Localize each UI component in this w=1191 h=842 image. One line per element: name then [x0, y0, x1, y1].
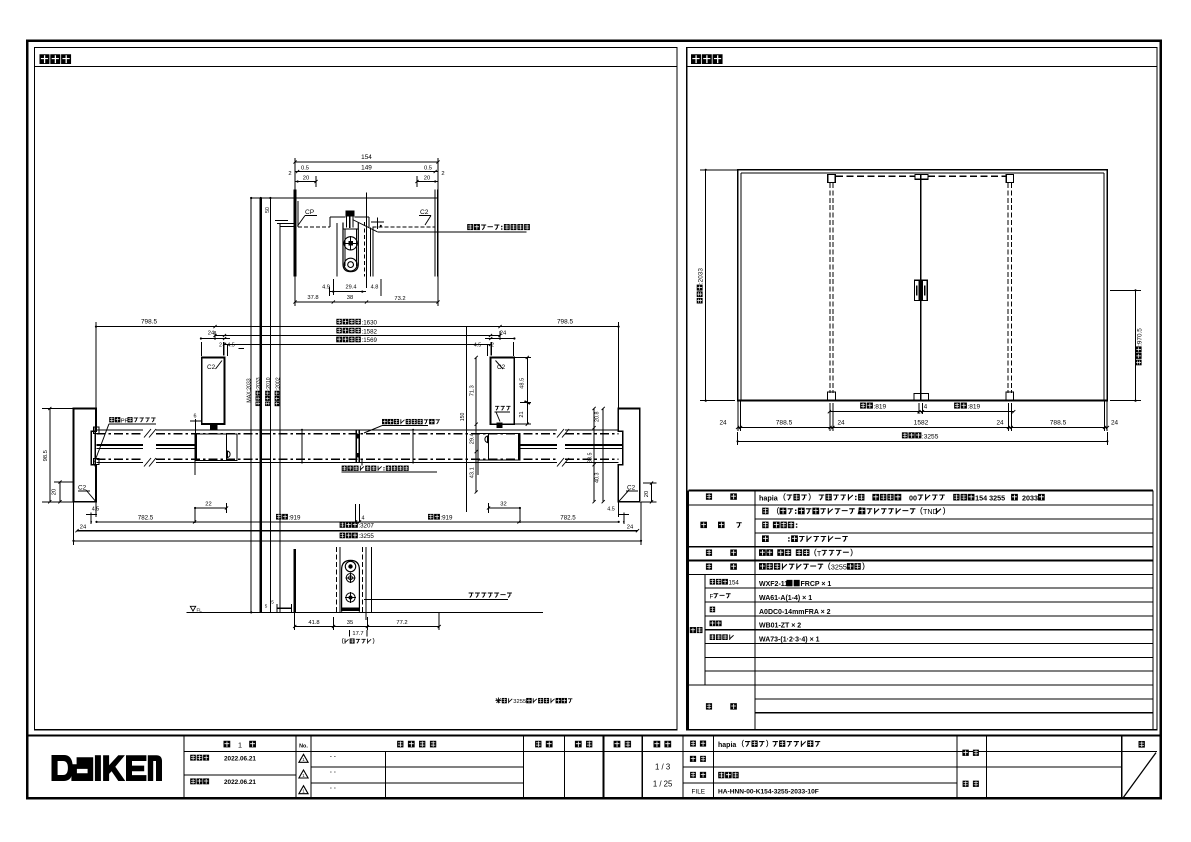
- svg-text:73.2: 73.2: [394, 296, 405, 302]
- plan tierB label: [336, 328, 341, 334]
- name column row line 1: [683, 766, 1122, 768]
- svg-text:5: 5: [265, 604, 268, 609]
- svg-text:4.8: 4.8: [371, 285, 379, 291]
- spec table row line 2: [755, 518, 1153, 520]
- svg-text::2010: :2010: [266, 377, 272, 390]
- svg-text:24: 24: [1111, 420, 1119, 427]
- door edge pull right: [485, 436, 488, 443]
- door end rect right ext: [477, 460, 479, 475]
- svg-text:32: 32: [500, 502, 506, 508]
- bottom wall line thick: [293, 549, 296, 612]
- front dim tier3 line: [738, 440, 1108, 442]
- spec hinban left edge lower: [687, 685, 689, 729]
- label tsurisha rail (separate part): [467, 224, 473, 230]
- svg-text:2: 2: [219, 343, 222, 349]
- svg-text:WA61-A(1-4) × 1: WA61-A(1-4) × 1: [759, 595, 812, 602]
- front tier2 tick: [831, 426, 834, 429]
- svg-text:71.3: 71.3: [470, 385, 476, 396]
- spec part hikite: [759, 623, 801, 630]
- svg-text:C2: C2: [420, 209, 429, 216]
- svg-text::3207: :3207: [358, 523, 374, 530]
- svg-text:hapia: hapia: [718, 742, 736, 749]
- svg-text:24: 24: [837, 420, 845, 427]
- rail profile bottom left (dashed): [298, 226, 330, 228]
- svg-text:798.5: 798.5: [557, 318, 573, 325]
- door panel lower line left: [97, 447, 144, 449]
- spec value handle: [759, 549, 766, 556]
- right pocket verticals: [593, 408, 595, 501]
- front dim frame-height top tick: [700, 169, 738, 171]
- spec value rail: [759, 563, 766, 570]
- svg-text:T: T: [817, 549, 822, 558]
- floor level mark: [190, 606, 195, 611]
- label zumei: [690, 772, 696, 778]
- front tier2 tick: [1007, 426, 1010, 429]
- hanger body rounded channel: [343, 223, 358, 272]
- plan dim tierA line: [96, 326, 619, 328]
- svg-text:1 / 3: 1 / 3: [655, 763, 670, 772]
- page box header line: [1122, 750, 1157, 752]
- c2 right ext vertical: [466, 327, 468, 512]
- revision history row line 0: [311, 766, 524, 768]
- svg-text::970.5: :970.5: [1137, 328, 1144, 346]
- left jamb dim 98.5: [49, 409, 51, 502]
- page diagonal: [1124, 753, 1157, 798]
- front handle left: [914, 280, 919, 300]
- spec table row line 16: [755, 712, 1153, 714]
- top detail left ext line: [294, 158, 296, 190]
- svg-text::1582: :1582: [362, 328, 378, 335]
- svg-text:C2: C2: [627, 485, 636, 492]
- svg-text:20: 20: [424, 175, 430, 181]
- spec value panel finish: [762, 508, 768, 515]
- svg-text:C2: C2: [78, 485, 87, 492]
- spec label totte: [706, 549, 712, 555]
- front dim frame-height bottom tick: [700, 400, 735, 402]
- title block column line 9: [985, 736, 987, 799]
- DAIKEN logo: [52, 755, 163, 781]
- svg-text:No.: No.: [299, 744, 308, 750]
- hanger roller upper: [344, 237, 357, 250]
- header kakunin: [575, 741, 582, 748]
- svg-text:4.5: 4.5: [607, 506, 615, 512]
- svg-text:788.5: 788.5: [1050, 420, 1067, 427]
- front tier2 tick: [736, 426, 739, 429]
- label meisho: [690, 741, 696, 747]
- front door top dashed edge left: [836, 175, 915, 177]
- bottom dim note parens: [342, 638, 344, 644]
- svg-text:WB01-ZT × 2: WB01-ZT × 2: [759, 623, 801, 630]
- front frame inner right: [1103, 173, 1105, 401]
- svg-text::3255: :3255: [922, 433, 939, 440]
- svg-text:MAX:2033: MAX:2033: [247, 378, 253, 402]
- front dim door width left: [860, 403, 866, 409]
- wall section line left (thick): [294, 190, 297, 277]
- svg-text:4.9: 4.9: [322, 285, 330, 291]
- svg-text:F: F: [710, 593, 714, 600]
- revision mark triangle 3: [299, 786, 308, 794]
- left jamb dim 20: [59, 482, 61, 502]
- top detail dim 20 right: [417, 181, 438, 183]
- front frame inner top: [741, 172, 1104, 174]
- bottom guide arch: [342, 560, 360, 611]
- svg-text:20: 20: [52, 489, 58, 495]
- front frame inner left: [740, 173, 742, 401]
- right jamb double line: [434, 190, 436, 277]
- label zuin: [963, 781, 969, 787]
- svg-text:154: 154: [361, 154, 372, 161]
- c2 post right rect: [491, 357, 515, 424]
- ceiling line above rail: [250, 197, 294, 199]
- name column row line 0: [683, 750, 957, 752]
- svg-text:782.5: 782.5: [138, 514, 154, 521]
- label flat rail: [469, 593, 474, 598]
- svg-text:22: 22: [205, 502, 211, 508]
- front tier2 tick: [1103, 426, 1106, 429]
- front bottom rule thick: [738, 400, 1108, 402]
- svg-text::819: :819: [873, 404, 886, 411]
- front tier2 tick: [1106, 426, 1109, 429]
- front handle right inner: [924, 286, 926, 296]
- svg-text:3255: 3255: [513, 699, 526, 705]
- svg-text:4.5: 4.5: [227, 343, 235, 349]
- bottom roller top: [345, 561, 355, 571]
- spec value style row: [759, 493, 1045, 502]
- floor step left: [277, 607, 291, 609]
- svg-text:24: 24: [80, 525, 87, 531]
- spec part fixed frame: [759, 580, 831, 588]
- right panel title divider: [687, 65, 1157, 67]
- revision mark triangle 1: [299, 754, 308, 762]
- svg-text:150: 150: [460, 413, 466, 422]
- spec sub door: [710, 607, 715, 613]
- svg-text:788.5: 788.5: [776, 420, 793, 427]
- svg-text:29.4: 29.4: [346, 285, 357, 291]
- svg-text:40.3: 40.3: [595, 473, 601, 484]
- spec label kanamono: [706, 563, 712, 569]
- title block column line 6: [682, 736, 684, 799]
- front left door top guide block: [828, 174, 835, 182]
- svg-text:WXF2-11: WXF2-11: [759, 581, 788, 588]
- svg-text:4.5: 4.5: [92, 506, 100, 512]
- front dim tier1 line: [829, 411, 1013, 413]
- front dim overall width 3255: [902, 432, 908, 438]
- bottom centre line: [365, 548, 367, 620]
- ceiling double line stub: [277, 222, 295, 224]
- bottom dim line: [295, 626, 440, 628]
- ceiling height dim 50: [265, 207, 271, 213]
- front ext lines below frame: [737, 401, 739, 431]
- svg-text::2033: :2033: [256, 377, 262, 390]
- svg-text:24: 24: [208, 331, 215, 337]
- left jamb section rect: [74, 409, 97, 502]
- svg-text::819: :819: [967, 404, 980, 411]
- spec label shi-a-ge: [700, 522, 707, 528]
- svg-text:24: 24: [719, 420, 727, 427]
- door band upper hidden dash: [97, 433, 144, 435]
- rail profile step right: [354, 216, 369, 218]
- spec table row line 7: [705, 587, 1153, 589]
- svg-text::1630: :1630: [362, 319, 378, 326]
- svg-text:38.5: 38.5: [588, 453, 594, 464]
- front tier2 tick: [1010, 426, 1013, 429]
- svg-text:24: 24: [500, 331, 507, 337]
- name column row line 2: [683, 782, 957, 784]
- svg-text:WA73-(1·2·3·4) × 1: WA73-(1·2·3·4) × 1: [759, 637, 820, 644]
- right pocket dim labels: [595, 412, 601, 423]
- left view panel box: [35, 48, 677, 730]
- rail inner left vertical: [297, 201, 299, 227]
- door edge pull left: [228, 451, 231, 458]
- hanger roller lower: [344, 258, 357, 271]
- svg-text:2: 2: [441, 171, 444, 177]
- value product name: [718, 740, 820, 749]
- spec table row line 8: [705, 601, 1153, 603]
- plan tier3 label: [340, 533, 345, 539]
- spec table row line 15: [755, 698, 1153, 700]
- bottom roller low: [346, 593, 355, 602]
- svg-text:· ·: · ·: [330, 785, 336, 792]
- front right door hidden edge (dashed pair): [1007, 183, 1009, 393]
- plan tier1 ticks: [193, 520, 196, 523]
- front dim frame-height label 2033: [697, 268, 705, 304]
- spec label yo-shiki: [706, 493, 712, 499]
- bottom channel lines: [336, 547, 338, 612]
- flat rail leader: [364, 599, 508, 601]
- spec part tojiri: [759, 637, 820, 644]
- title block column line 1: [295, 736, 297, 799]
- top detail left ext to tier: [294, 277, 296, 307]
- header shukushaku: [654, 741, 661, 748]
- front handle right: [922, 280, 927, 300]
- svg-text:CP: CP: [305, 209, 315, 216]
- hanger rail leader diagonal: [353, 220, 378, 232]
- rail hanger bolt head: [345, 210, 354, 216]
- svg-text:41.8: 41.8: [308, 620, 319, 626]
- spec table row line 9: [705, 615, 1153, 617]
- svg-text:154: 154: [729, 580, 740, 587]
- front right door bottom guide block: [1006, 392, 1014, 401]
- svg-text:149: 149: [361, 164, 372, 171]
- door end rect left: [195, 434, 237, 460]
- c2 post left top dims: [201, 338, 230, 340]
- front dim handle-height ticks: [1110, 289, 1141, 291]
- spec table label column line: [754, 490, 756, 729]
- rail profile step left: [329, 217, 331, 227]
- svg-text:0.5: 0.5: [424, 165, 432, 171]
- svg-text:24: 24: [627, 525, 634, 531]
- spec label biko: [706, 703, 712, 709]
- svg-text:1 / 25: 1 / 25: [653, 780, 673, 789]
- svg-text:21: 21: [519, 411, 525, 417]
- spec value door edge: [762, 522, 768, 529]
- top rail top plate: [295, 197, 438, 199]
- svg-text:77.2: 77.2: [396, 620, 407, 626]
- spec part f-rail: [759, 595, 812, 602]
- spec table row line 12: [705, 656, 1153, 658]
- rail channel left line: [336, 223, 338, 277]
- top detail right ext line: [437, 158, 439, 190]
- title block column line 3: [523, 736, 525, 799]
- header sakusei: [614, 741, 621, 748]
- svg-text:2: 2: [288, 171, 291, 177]
- rail channel right dashed: [363, 222, 365, 277]
- svg-text:FL: FL: [197, 607, 203, 612]
- svg-text:1582: 1582: [914, 420, 929, 427]
- hanger rail leader line: [377, 231, 526, 233]
- height label MAX2033: [247, 378, 253, 402]
- label kenmei: [962, 750, 968, 756]
- svg-text:1: 1: [238, 740, 242, 749]
- door panel thick line left: [97, 444, 144, 446]
- right jamb section rect: [618, 409, 640, 502]
- svg-text:C2: C2: [207, 364, 216, 371]
- door panel lower line right: [520, 447, 557, 449]
- panel tick right: [412, 430, 414, 463]
- right jamb ext line: [617, 327, 619, 427]
- panel tick left: [301, 430, 303, 463]
- svg-text::2033: :2033: [698, 268, 705, 284]
- right jamb chamfer: [619, 490, 630, 502]
- svg-text:1: 1: [302, 757, 305, 762]
- spec right edge: [1152, 490, 1154, 729]
- plan dim tierB line: [215, 335, 500, 337]
- svg-text:TND: TND: [923, 507, 938, 516]
- spec table row line 6: [688, 573, 1153, 575]
- left panel title divider: [35, 65, 677, 67]
- svg-text:· ·: · ·: [330, 754, 336, 761]
- svg-text:4: 4: [362, 516, 365, 522]
- c2 right dim col 29.4: [475, 424, 477, 451]
- left jamb inner ext line: [95, 327, 97, 427]
- svg-text:1: 1: [302, 773, 305, 778]
- spec table row line 1: [688, 504, 1153, 506]
- break mark left: [144, 429, 151, 438]
- front door top dashed edge right: [928, 175, 1006, 177]
- rail profile bottom right (dashed): [372, 226, 435, 228]
- plan dim tier3 line: [74, 540, 642, 542]
- section vertical line 2 (thick): [260, 198, 262, 612]
- rev row divider seitei/kaitei: [184, 774, 296, 776]
- view label SECTION (dan-men-zu): [40, 54, 50, 64]
- spec table top rule: [688, 489, 1153, 491]
- plan dim 22: [195, 507, 226, 509]
- spec table row line 10: [705, 629, 1153, 631]
- c2 right dim 48.5 col: [526, 357, 528, 402]
- front tier2 tick: [739, 426, 742, 429]
- svg-text:48.5: 48.5: [519, 378, 525, 389]
- value drawing name sanpo-waku: [718, 772, 724, 778]
- spec table row line 5: [688, 560, 1153, 562]
- c2 post left seal: [210, 423, 217, 430]
- spec table left edge: [687, 490, 689, 729]
- revision history inner divider: [385, 751, 387, 798]
- title block column line 8: [956, 736, 958, 799]
- front dim door width right: [954, 403, 960, 409]
- door panel thick line right: [520, 444, 557, 446]
- front handle left inner: [916, 286, 918, 296]
- svg-text:37.8: 37.8: [307, 295, 318, 301]
- c2 right dim col 71.3: [475, 357, 477, 424]
- view label FRONT (sho-men-zu): [691, 54, 701, 64]
- title block thick col 603: [602, 736, 604, 799]
- front centre bottom guide: [914, 394, 928, 401]
- svg-text:2033: 2033: [1022, 493, 1038, 502]
- svg-text:2022.06.21: 2022.06.21: [224, 779, 256, 786]
- spec label hinban (vertical): [690, 627, 696, 633]
- svg-text:20.8: 20.8: [595, 412, 601, 423]
- plan tierC label: [336, 337, 342, 343]
- svg-text:38: 38: [347, 295, 353, 301]
- revision mark triangle 2: [299, 770, 308, 778]
- plan left ext lines bottom: [73, 502, 75, 545]
- top detail dim 20 left: [295, 181, 316, 183]
- pp cap left: [94, 427, 96, 466]
- spec table row line 13: [705, 670, 1153, 672]
- front tier2 tick: [829, 426, 832, 429]
- front dim frame-height line: [705, 170, 707, 401]
- spec table row line 3: [755, 532, 1153, 534]
- title block column line 5: [641, 736, 643, 799]
- front right door top guide block: [1006, 174, 1013, 182]
- plan ext verticals top: [95, 322, 97, 340]
- c2 post right mohair label: [495, 406, 499, 411]
- front dim handle-height line: [1135, 290, 1137, 400]
- svg-text::919: :919: [288, 515, 301, 522]
- svg-text:hapia: hapia: [759, 493, 779, 502]
- svg-text::1569: :1569: [362, 337, 378, 344]
- label door stopper note: [342, 466, 347, 471]
- svg-text:FRCP × 1: FRCP × 1: [801, 581, 832, 588]
- door end rect right: [478, 434, 520, 460]
- label hatched-face note: [382, 419, 387, 424]
- plan dim 32: [489, 507, 520, 509]
- title block column line 4: [564, 736, 566, 799]
- plan tier2 label: [340, 522, 345, 528]
- c2 post right seal: [496, 423, 502, 429]
- svg-text:1: 1: [302, 789, 305, 794]
- label seitei-bi: [190, 755, 196, 761]
- top detail centre line: [366, 193, 368, 289]
- svg-text:3255: 3255: [831, 563, 847, 572]
- label page (all caps): [1139, 741, 1145, 748]
- svg-text:798.5: 798.5: [141, 318, 157, 325]
- plan centre gap ticks: [355, 504, 357, 522]
- floor line: [295, 611, 543, 613]
- svg-text:A0DC0-14mmFRA × 2: A0DC0-14mmFRA × 2: [759, 609, 831, 616]
- rev cell label dai-1-han: [224, 741, 231, 748]
- height label wakugai 2033: [256, 377, 263, 406]
- hanger rail leader cross: [371, 221, 384, 223]
- header shonin: [535, 741, 541, 748]
- c2 post left rect: [202, 358, 225, 424]
- door band lower hidden dash: [97, 458, 144, 460]
- svg-text:154 3255: 154 3255: [975, 493, 1005, 502]
- spec hinban sub column line: [704, 574, 706, 685]
- door band top edge: [97, 429, 144, 431]
- top detail dim 154 line: [295, 161, 438, 163]
- section vertical line 3: [269, 198, 271, 612]
- centre meeting stiles: [355, 430, 357, 463]
- label hinban: [690, 756, 696, 762]
- top detail dim tier2: [295, 171, 438, 173]
- svg-text:50: 50: [265, 207, 271, 213]
- svg-text:17.7: 17.7: [352, 631, 363, 637]
- section vertical line 4: [279, 223, 281, 612]
- front dim handle-height label 970.5: [1136, 328, 1144, 366]
- svg-text:4.5: 4.5: [474, 343, 482, 349]
- title block column line 0: [183, 736, 185, 799]
